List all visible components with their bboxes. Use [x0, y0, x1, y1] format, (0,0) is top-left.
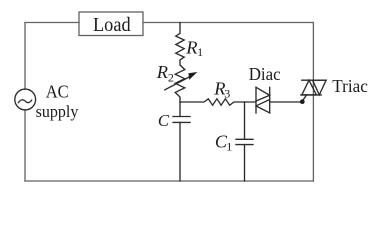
svg-text:supply: supply	[36, 102, 79, 121]
svg-text:2: 2	[168, 71, 174, 85]
svg-text:1: 1	[197, 45, 203, 59]
svg-text:R: R	[185, 38, 197, 58]
svg-text:1: 1	[226, 139, 232, 153]
svg-text:C: C	[158, 111, 170, 130]
svg-text:Triac: Triac	[332, 76, 368, 96]
svg-text:R: R	[156, 62, 168, 82]
svg-text:Diac: Diac	[249, 64, 281, 84]
svg-text:3: 3	[224, 86, 230, 100]
svg-text:Load: Load	[93, 15, 131, 36]
svg-text:AC: AC	[46, 82, 69, 102]
